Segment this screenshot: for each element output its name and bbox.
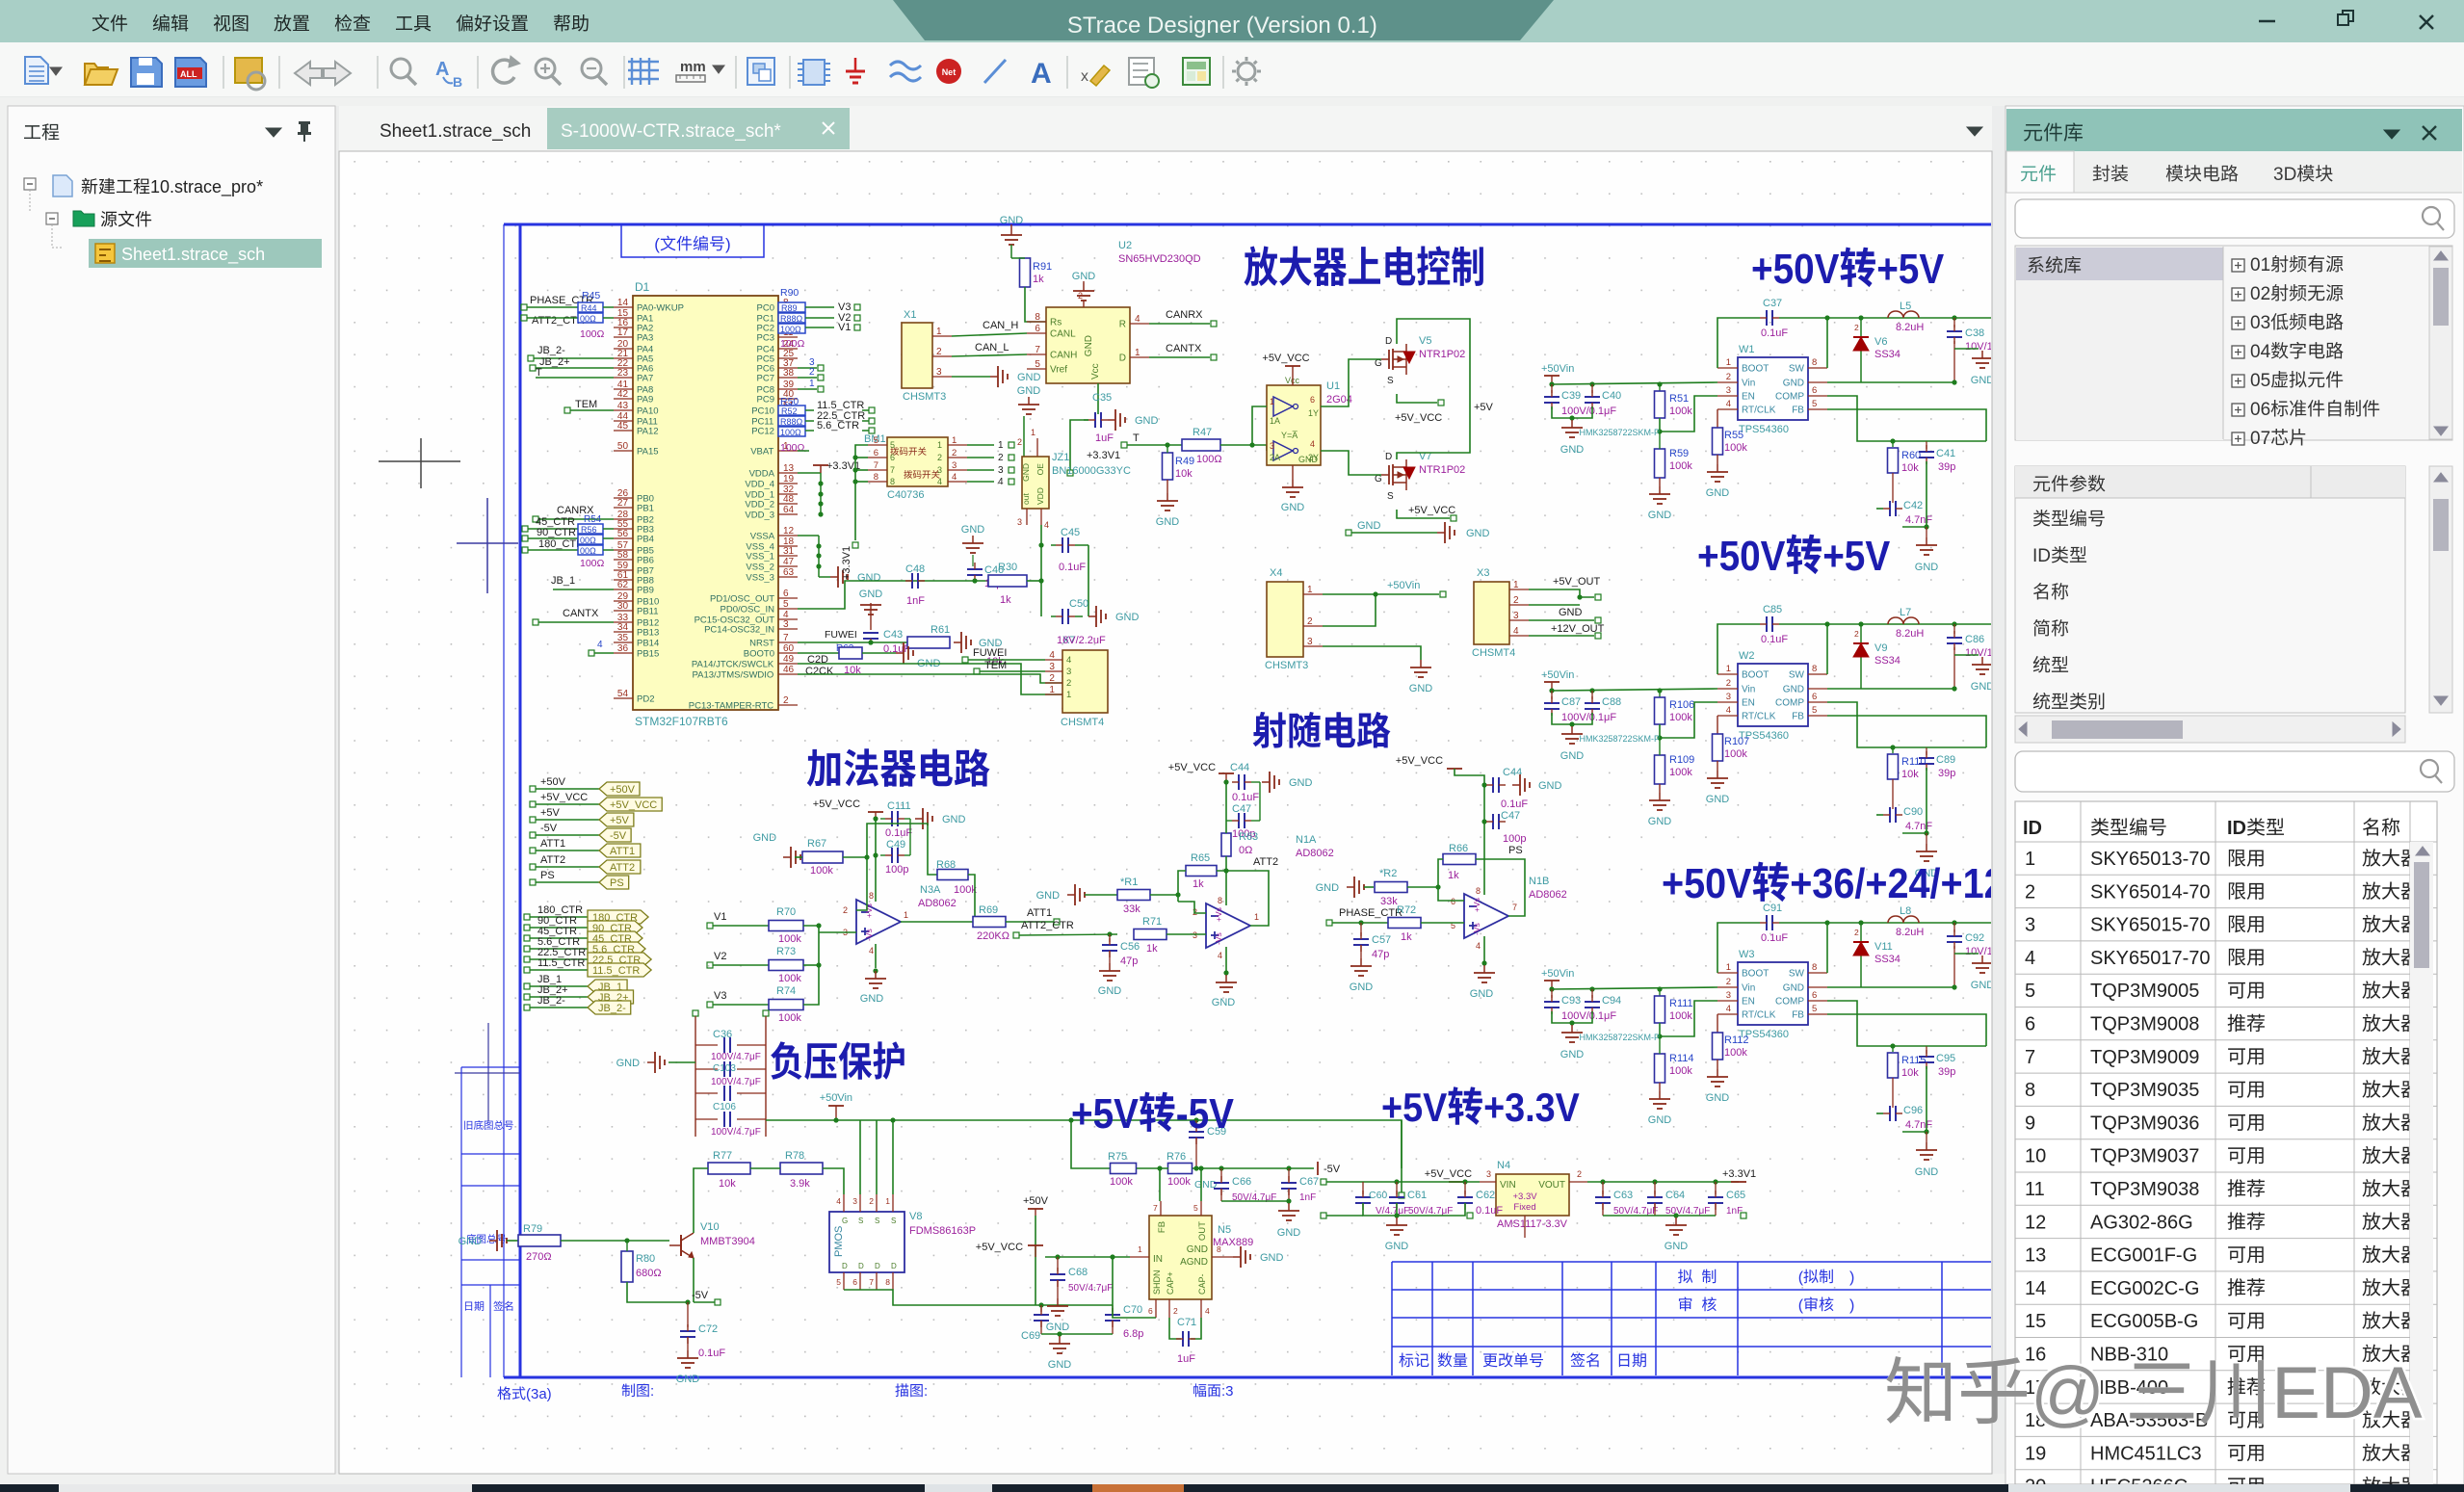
svg-text:+5V: +5V: [1822, 533, 1891, 580]
svg-text:Vcc: Vcc: [1090, 363, 1101, 380]
capacitor C90: [1892, 779, 1894, 809]
svg-text:*R1: *R1: [1120, 877, 1138, 888]
diode V11 SS34: [1860, 923, 1862, 987]
svg-text:7: 7: [874, 460, 878, 471]
ground: [783, 847, 800, 868]
wire: [1954, 348, 1979, 350]
svg-text:4: 4: [1049, 650, 1055, 661]
svg-text:7: 7: [2025, 1047, 2035, 1068]
label 负压保护: [771, 1041, 801, 1079]
svg-text:GND: GND: [942, 814, 966, 825]
transistor V5: [1381, 344, 1406, 375]
svg-text:4: 4: [1044, 520, 1049, 530]
svg-text:ALL: ALL: [180, 69, 197, 79]
svg-text:10k: 10k: [1901, 769, 1919, 780]
svg-text:8: 8: [890, 477, 895, 486]
wire: [967, 444, 994, 446]
pin icon: [298, 121, 311, 135]
svg-text:100V/4.7μF: 100V/4.7μF: [711, 1052, 761, 1062]
svg-text:100k: 100k: [1167, 1176, 1191, 1188]
svg-text:0.1uF: 0.1uF: [698, 1348, 725, 1359]
ground: [1282, 480, 1303, 497]
svg-text:R56: R56: [581, 525, 597, 535]
svg-text:1: 1: [1307, 585, 1313, 595]
svg-text:C106: C106: [713, 1102, 736, 1112]
svg-text:C69: C69: [1021, 1330, 1040, 1342]
title bar: [0, 0, 2464, 42]
svg-text:C47: C47: [1232, 803, 1251, 815]
svg-text:100V/0.1μF: 100V/0.1μF: [1561, 712, 1616, 723]
N5 bottom pins C71: [1155, 1299, 1157, 1318]
svg-text:04: 04: [2250, 342, 2271, 362]
component library panel: [2005, 106, 2464, 1484]
svg-text:1: 1: [2025, 849, 2035, 870]
svg-text:NRST: NRST: [749, 639, 774, 649]
svg-text:C47: C47: [1501, 810, 1520, 822]
tree item source folder: [46, 213, 58, 224]
svg-text:R47: R47: [1193, 427, 1212, 438]
svg-text:IN: IN: [1153, 1254, 1163, 1265]
ground: [1278, 1203, 1299, 1220]
svg-text:VDDA: VDDA: [749, 469, 775, 480]
diode V9: [1853, 643, 1869, 657]
svg-text:100Ω: 100Ω: [780, 428, 801, 437]
svg-text:1nF: 1nF: [906, 595, 925, 607]
svg-text:GND: GND: [1021, 463, 1031, 482]
feedback R66 PS: [1443, 854, 1476, 865]
svg-text:GND: GND: [1048, 1359, 1072, 1371]
svg-text:5: 5: [1812, 705, 1817, 716]
svg-text:C62: C62: [1476, 1190, 1495, 1201]
svg-text:100k: 100k: [1669, 1010, 1692, 1022]
svg-text:SW: SW: [1789, 364, 1805, 375]
svg-text:27: 27: [617, 498, 629, 509]
wire: [1552, 713, 1592, 724]
svg-text:FB: FB: [1792, 712, 1804, 722]
ground: [1099, 963, 1120, 981]
svg-text:BN16000G33YC: BN16000G33YC: [1052, 465, 1131, 477]
svg-text:3: 3: [1193, 930, 1197, 940]
VDD rail +3.3V1: [798, 472, 821, 474]
wire: [968, 875, 975, 922]
wire: [1191, 1318, 1201, 1339]
toolbar icon refresh: [493, 60, 514, 83]
svg-text:ID: ID: [2227, 818, 2246, 839]
svg-text:SS34: SS34: [1874, 655, 1900, 667]
svg-text:4: 4: [869, 946, 874, 955]
svg-text:6: 6: [852, 1277, 857, 1287]
wire: [803, 964, 819, 966]
U1 ground: [1292, 465, 1294, 480]
svg-text:C37: C37: [1763, 298, 1782, 309]
wire: [1396, 1203, 1398, 1216]
wire: [1485, 784, 1487, 786]
inductor L8: [1888, 916, 1919, 923]
svg-text:4: 4: [1726, 1004, 1731, 1014]
svg-text:5.6_CTR: 5.6_CTR: [817, 420, 859, 432]
svg-text:R75: R75: [1108, 1151, 1127, 1163]
svg-text:C67: C67: [1299, 1176, 1319, 1188]
wire: [1025, 287, 1046, 322]
svg-text:C43: C43: [883, 629, 903, 641]
svg-text:R77: R77: [713, 1150, 732, 1162]
port 180_CTR: [588, 910, 648, 924]
-5V generation R75 R76: [1111, 1164, 1137, 1174]
project panel: [8, 106, 335, 1474]
svg-text:C86: C86: [1965, 634, 1984, 645]
document tabs: [339, 106, 1992, 151]
capacitor bank C36: [693, 1010, 698, 1016]
svg-text:PA14/JTCK/SWCLK: PA14/JTCK/SWCLK: [692, 660, 774, 670]
ground: [954, 632, 971, 653]
svg-text:39p: 39p: [1938, 1066, 1955, 1078]
net T R47 R49: [1121, 442, 1127, 448]
svg-text:GND: GND: [1260, 1252, 1284, 1264]
ground: [1916, 1142, 1937, 1160]
ground: [1707, 464, 1728, 482]
svg-text:100Ω: 100Ω: [780, 325, 801, 334]
svg-text:+5V_VCC: +5V_VCC: [976, 1242, 1023, 1253]
svg-text:R88Ω: R88Ω: [780, 314, 803, 324]
wire: [1397, 394, 1437, 403]
svg-text:5: 5: [783, 599, 789, 610]
capacitor C96: [1892, 1078, 1894, 1108]
svg-text:*R2: *R2: [1379, 868, 1397, 879]
svg-text:CANTX: CANTX: [1166, 343, 1202, 354]
port ATT1: [599, 844, 641, 857]
svg-text:R51: R51: [1669, 393, 1689, 405]
wire: [967, 481, 994, 483]
svg-text:49: 49: [783, 654, 795, 665]
wire: [1137, 1167, 1168, 1169]
svg-text:3: 3: [1049, 662, 1055, 672]
svg-text:JB_1: JB_1: [551, 575, 575, 587]
svg-text:ECG001F-G: ECG001F-G: [2090, 1245, 2197, 1267]
ground: [896, 642, 913, 664]
toolbar icon line: [984, 60, 1006, 83]
svg-text:FB: FB: [1792, 1010, 1804, 1021]
connector X7: [1062, 650, 1108, 713]
svg-text:1: 1: [1031, 428, 1035, 437]
svg-text:V2: V2: [714, 951, 726, 962]
svg-text:+Vs: +Vs: [1472, 898, 1481, 912]
wire: [1397, 319, 1470, 459]
svg-text:R44: R44: [581, 303, 597, 313]
wire: [1827, 409, 1986, 441]
svg-text:SKY65013-70: SKY65013-70: [2090, 849, 2211, 870]
wire: [1876, 814, 1883, 816]
svg-text:A: A: [1031, 58, 1052, 90]
svg-text:1: 1: [937, 440, 942, 450]
port +50V: [599, 782, 640, 796]
svg-text:100Ω: 100Ω: [580, 328, 605, 340]
svg-text:+5V_VCC: +5V_VCC: [1168, 762, 1216, 773]
svg-text:EDA: EDA: [2271, 1352, 2423, 1434]
title block: [1392, 1262, 1992, 1375]
svg-text:00Ω: 00Ω: [580, 314, 596, 324]
toolbar icon bom: [1183, 58, 1210, 85]
svg-text:N3A: N3A: [920, 884, 941, 896]
toolbar icon redo: [324, 62, 351, 85]
svg-text:SKY65014-70: SKY65014-70: [2090, 881, 2211, 903]
wire: [1827, 381, 1954, 383]
svg-text:SHDN: SHDN: [1152, 1270, 1162, 1295]
wire: [1954, 953, 1979, 955]
svg-text:7: 7: [1512, 903, 1517, 912]
wire: [1552, 406, 1592, 418]
wire: [1323, 593, 1439, 595]
svg-text:6: 6: [1812, 990, 1817, 1001]
svg-text:4: 4: [1513, 626, 1519, 637]
wire: [1927, 440, 1986, 442]
svg-text:): ): [1849, 1297, 1854, 1314]
svg-text:1: 1: [1138, 1244, 1142, 1254]
label 射随电路: [1253, 712, 1286, 748]
wire: [952, 376, 990, 378]
ground: [647, 1052, 665, 1073]
svg-text:R89: R89: [781, 303, 798, 313]
capacitor C41: [1926, 441, 1927, 449]
svg-text:6: 6: [1310, 395, 1315, 405]
svg-text:R74: R74: [776, 985, 796, 997]
svg-text:100k: 100k: [1669, 406, 1692, 417]
wire: [875, 944, 877, 968]
svg-text:4.7nF: 4.7nF: [1905, 514, 1932, 526]
wire: [1529, 619, 1594, 621]
svg-text:U2: U2: [1118, 240, 1132, 251]
svg-text:RT/CLK: RT/CLK: [1742, 406, 1776, 416]
svg-text:Vin: Vin: [1742, 379, 1755, 389]
svg-text:HMC451LC3: HMC451LC3: [2090, 1443, 2202, 1464]
library tree item 05虚拟元件: [2232, 375, 2244, 387]
wire: [1717, 923, 1760, 973]
wire: [1397, 510, 1450, 518]
resistor R55: [1717, 409, 1718, 428]
svg-text:6: 6: [2025, 1014, 2035, 1035]
svg-text:RT/CLK: RT/CLK: [1742, 1010, 1776, 1021]
toolbar icon save: [131, 58, 162, 87]
svg-text:ECG002C-G: ECG002C-G: [2090, 1278, 2199, 1299]
library tree item 04数字电路: [2232, 346, 2244, 358]
svg-text:31: 31: [783, 546, 795, 557]
svg-text:50V/4.7μF: 50V/4.7μF: [1068, 1283, 1113, 1294]
svg-text:T: T: [1133, 432, 1140, 444]
svg-text:ATT2_CTR: ATT2_CTR: [532, 315, 585, 327]
svg-text:3: 3: [1270, 441, 1274, 451]
svg-text:2: 2: [1854, 629, 1859, 639]
svg-text:GND: GND: [1971, 375, 1995, 386]
svg-text:out: out: [1021, 493, 1031, 505]
svg-text:V5: V5: [1419, 335, 1431, 347]
svg-text:64: 64: [783, 505, 795, 515]
svg-text:23: 23: [617, 368, 629, 379]
svg-text:GND: GND: [1316, 882, 1340, 894]
svg-text:+Vs: +Vs: [1214, 907, 1223, 922]
svg-text:2: 2: [2025, 881, 2035, 903]
ground: [1049, 1336, 1070, 1353]
svg-text:2: 2: [1726, 678, 1731, 689]
svg-text:13: 13: [2025, 1245, 2046, 1267]
svg-text:8: 8: [1218, 896, 1222, 905]
svg-text:PB1: PB1: [637, 504, 654, 514]
wire: [1827, 1014, 1986, 1046]
svg-text:PC10: PC10: [751, 406, 774, 417]
svg-text:4: 4: [952, 472, 957, 483]
svg-text:+5V: +5V: [1474, 402, 1494, 413]
svg-text:D: D: [891, 1262, 897, 1270]
svg-text:33k: 33k: [1123, 903, 1140, 915]
ground: [1561, 726, 1583, 744]
capacitor C94: [1591, 989, 1593, 998]
centering cross: [379, 460, 460, 462]
resistor R77: [708, 1163, 750, 1174]
svg-text:3: 3: [1726, 692, 1731, 702]
svg-text:6: 6: [1451, 897, 1455, 906]
svg-text:42: 42: [617, 389, 629, 400]
svg-text:V8: V8: [909, 1211, 922, 1222]
svg-text:S: S: [1387, 376, 1394, 386]
svg-text:PC14-OSC32_IN: PC14-OSC32_IN: [704, 625, 774, 636]
svg-text:C95: C95: [1936, 1053, 1955, 1064]
svg-text:R90: R90: [780, 287, 799, 299]
svg-text:C96: C96: [1903, 1105, 1923, 1116]
svg-text:D: D: [842, 1262, 848, 1270]
svg-text:3.9k: 3.9k: [790, 1178, 810, 1190]
svg-text:GND: GND: [1135, 415, 1159, 427]
port PS: [599, 876, 629, 889]
capacitor C39: [1551, 384, 1553, 393]
svg-text:100k: 100k: [1669, 460, 1692, 472]
wire: [1902, 1066, 1927, 1132]
svg-text:PA3: PA3: [637, 333, 653, 344]
svg-text:C44: C44: [1230, 762, 1249, 773]
svg-text:TQP3M9008: TQP3M9008: [2090, 1014, 2199, 1035]
svg-text:R: R: [1119, 320, 1126, 330]
svg-text:1: 1: [1726, 357, 1731, 368]
resistor R110: [1892, 747, 1894, 753]
svg-text:+50Vin: +50Vin: [1541, 363, 1574, 375]
ground: [962, 536, 983, 553]
ground: [1350, 958, 1372, 976]
svg-text:+5V: +5V: [540, 807, 561, 819]
wire: [1927, 1045, 1986, 1047]
svg-text:PA10: PA10: [637, 406, 659, 417]
svg-text:5: 5: [890, 440, 895, 450]
svg-text:GND: GND: [1783, 685, 1804, 695]
svg-text:100Ω: 100Ω: [780, 338, 805, 350]
ground: [1972, 955, 1993, 973]
N5 top pins: [1160, 1201, 1162, 1216]
svg-text:8.2uH: 8.2uH: [1896, 927, 1924, 938]
svg-text:5: 5: [1193, 1203, 1198, 1213]
wire: [1225, 856, 1227, 905]
svg-text:EN: EN: [1742, 392, 1755, 403]
capacitor C70: [1112, 1305, 1114, 1312]
parameter table: [2015, 466, 2405, 713]
wire: [1827, 986, 1954, 988]
wire: [798, 664, 1062, 694]
capacitor C88: [1591, 691, 1593, 699]
svg-text:GND: GND: [1046, 1322, 1070, 1333]
wire: [1827, 716, 1986, 747]
svg-text:VOUT: VOUT: [1538, 1180, 1565, 1191]
library tree item 06标准件自制件: [2232, 404, 2244, 416]
svg-text:C91: C91: [1763, 903, 1782, 914]
svg-text:4: 4: [1066, 655, 1071, 666]
svg-text:90_CTR: 90_CTR: [537, 527, 576, 538]
svg-text:U1: U1: [1326, 380, 1340, 392]
svg-text:(: (: [1798, 1270, 1804, 1286]
svg-text:+5V: +5V: [1071, 1090, 1140, 1138]
svg-text:0.1uF: 0.1uF: [885, 827, 912, 839]
svg-text:0.1uF: 0.1uF: [1476, 1205, 1503, 1217]
wire: [1150, 894, 1178, 896]
toolbar icon place part: [803, 60, 825, 85]
svg-text:13: 13: [783, 463, 795, 474]
svg-text:GND: GND: [1971, 980, 1995, 991]
capacitor C86: [1953, 624, 1955, 634]
svg-text:4: 4: [1726, 399, 1731, 409]
svg-text:+50V: +50V: [1023, 1195, 1049, 1207]
svg-text:3: 3: [2025, 915, 2035, 936]
svg-text:PC7: PC7: [757, 374, 774, 384]
svg-text:STrace Designer (Version 0.1): STrace Designer (Version 0.1): [1067, 13, 1377, 39]
wire: [1113, 1257, 1156, 1318]
wire: [1401, 1120, 1402, 1192]
N5 body: [1149, 1216, 1212, 1299]
wire: [1483, 936, 1485, 963]
svg-text:03: 03: [2250, 313, 2270, 333]
centering cross: [457, 542, 518, 544]
svg-text:46: 46: [783, 665, 795, 675]
svg-text:C48: C48: [905, 563, 925, 575]
svg-text:mm: mm: [680, 59, 706, 75]
resistor R109: [1655, 755, 1665, 784]
svg-text:6.8p: 6.8p: [1123, 1328, 1143, 1340]
capacitor C59: [1195, 1120, 1197, 1129]
svg-text:1k: 1k: [1193, 878, 1204, 890]
svg-text:11.5_CTR: 11.5_CTR: [537, 957, 585, 969]
svg-text:PB11: PB11: [637, 607, 659, 617]
capacitor C89: [1926, 747, 1927, 755]
svg-text:+3.3V1: +3.3V1: [1722, 1168, 1756, 1180]
wire: [1660, 702, 1717, 738]
svg-text:ATT2_CTR: ATT2_CTR: [1021, 920, 1074, 931]
svg-text:JZ1: JZ1: [1052, 452, 1069, 463]
svg-text:TQP3M9038: TQP3M9038: [2090, 1179, 2199, 1200]
wire: [1041, 1333, 1113, 1335]
svg-text:2: 2: [1577, 1169, 1582, 1179]
svg-text:ATT2: ATT2: [540, 854, 565, 866]
wire: [967, 457, 994, 458]
svg-text:220KΩ: 220KΩ: [977, 930, 1009, 942]
svg-text:(: (: [654, 235, 660, 253]
svg-text:GND: GND: [859, 589, 883, 600]
ground: [990, 366, 1008, 387]
svg-text:C71: C71: [1177, 1317, 1196, 1328]
svg-text:11.5_CTR: 11.5_CTR: [592, 965, 640, 977]
svg-text:R112: R112: [1724, 1034, 1748, 1046]
svg-text:+50V: +50V: [540, 776, 566, 788]
svg-text:PB15: PB15: [637, 649, 659, 660]
scrollbar: [2429, 247, 2452, 439]
microcontroller D1 STM32F107RBT6: [633, 296, 778, 710]
wire: [1438, 859, 1464, 901]
svg-text:Net: Net: [942, 67, 957, 77]
svg-text:N1B: N1B: [1529, 876, 1549, 887]
svg-text:R107: R107: [1724, 736, 1749, 747]
svg-text:T: T: [536, 367, 542, 379]
